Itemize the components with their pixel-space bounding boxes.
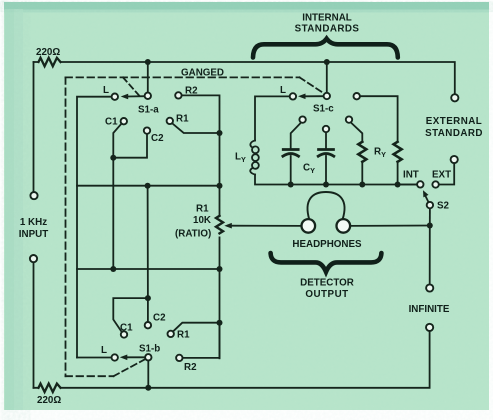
svg-text:INT: INT: [403, 170, 419, 181]
S1-c wiper arm: [305, 95, 324, 97]
inductor LY coil: [250, 141, 255, 148]
svg-text:STANDARDS: STANDARDS: [295, 24, 360, 35]
svg-text:L: L: [101, 345, 107, 356]
svg-text:S2: S2: [437, 201, 450, 212]
S1-a contact L: [112, 94, 118, 100]
svg-text:C2: C2: [153, 313, 166, 324]
resistor 220ohm (bottom): [39, 384, 61, 392]
svg-text:INFINITE: INFINITE: [409, 304, 450, 315]
wire: cap2 bottom lead: [325, 156, 327, 185]
wire: S1-c C contact to resistor1: [351, 123, 362, 142]
S1-c contact L: [290, 93, 296, 99]
S2 contact INT: [417, 181, 423, 187]
S1-a contact R1: [167, 118, 173, 124]
arrow pot wiper: [224, 223, 232, 229]
ganged dashed diagonal to S1-b: [114, 359, 146, 376]
arrow S1-c: [298, 94, 306, 100]
capacitor CY1 plates: [283, 148, 298, 151]
resistor RY2 zigzag: [394, 142, 402, 162]
junction top rail / S1-c: [324, 59, 330, 65]
wire: S1-a pole stem: [147, 62, 149, 93]
headphone earpiece left: [302, 219, 316, 233]
svg-text:L: L: [103, 85, 109, 96]
wire: S1-c D contact to right resistor column: [360, 96, 398, 142]
wire: left mid horizontal (upper): [77, 185, 220, 187]
wire: S1-b C1 contact branch: [113, 298, 148, 332]
junction headphone / S2: [427, 223, 433, 229]
resistor RY1 zigzag: [358, 142, 366, 162]
wire: S1-a C2 contact branch: [113, 134, 147, 158]
svg-text:S1-a: S1-a: [138, 105, 159, 116]
junction top rail / S1-a: [145, 59, 151, 65]
svg-text:R2: R2: [185, 86, 198, 97]
wire: S2 pole to headphone node: [429, 208, 431, 225]
junction RY1 / standards rail: [359, 182, 365, 188]
svg-text:STANDARD: STANDARD: [425, 128, 483, 139]
junction mid-upper / center: [145, 183, 151, 189]
svg-text:C1: C1: [120, 322, 133, 333]
svg-text:INTERNAL: INTERNAL: [302, 13, 352, 24]
wire: left input column (upper): [33, 62, 35, 192]
svg-text:S1-b: S1-b: [139, 344, 160, 355]
S1-c contact D: [354, 93, 360, 99]
junction R1a / R column: [217, 130, 223, 136]
ganged dashed diagonal to S1-c: [300, 77, 325, 93]
headphone headband arc: [308, 192, 345, 220]
wire: top rail from input corner to external-standard corner: [34, 62, 455, 94]
svg-text:INPUT: INPUT: [19, 229, 48, 240]
S1-a pole contact: [145, 93, 151, 99]
wire: S1-a R2 contact to R column: [182, 95, 220, 215]
arrow S1-b: [120, 355, 128, 361]
arrow S2: [423, 190, 429, 197]
svg-text:L: L: [280, 85, 286, 96]
S1-b pole contact: [145, 354, 151, 360]
terminal 1kHz input upper: [30, 192, 37, 199]
S1-c pole contact: [324, 93, 330, 99]
wire: S1-c pole stem: [326, 62, 328, 93]
wire: bottom rail: [34, 331, 430, 388]
svg-text:EXT: EXT: [432, 170, 451, 181]
wire: left mid horizontal (lower): [77, 268, 220, 270]
arrow S1-a: [121, 94, 129, 100]
S1-a contact R2: [175, 92, 181, 98]
wire: inductor bottom lead: [255, 175, 418, 185]
S1-c contact A: [299, 116, 305, 122]
wire: S1-a R1 contact branch: [172, 123, 219, 133]
wire: right headphone to S2 node: [350, 225, 430, 227]
svg-text:GANGED: GANGED: [181, 68, 224, 79]
svg-text:HEADPHONES: HEADPHONES: [292, 239, 362, 250]
svg-text:S1-c: S1-c: [313, 104, 334, 115]
S1-a wiper arm: [128, 95, 145, 97]
ganged dashed bottom run: [66, 375, 114, 377]
terminal external standard lower: [451, 156, 458, 163]
junction S1-b pole / bottom rail: [145, 385, 151, 391]
svg-text:10K: 10K: [193, 215, 211, 226]
S1-a contact C2: [144, 127, 150, 133]
wire: C-node vertical center: [147, 186, 149, 322]
wire: S1-a C1 contact branch: [113, 124, 121, 269]
junction C node lower: [145, 295, 151, 301]
wire: S1-c L contact to inductor column: [255, 96, 290, 140]
S1-b contact C2: [145, 322, 151, 328]
S1-b wiper arm: [127, 356, 146, 358]
ganged dashed left column: [65, 77, 67, 376]
svg-text:R1: R1: [176, 114, 189, 125]
svg-text:EXTERNAL: EXTERNAL: [426, 116, 482, 127]
junction cap1 / standards rail: [288, 182, 294, 188]
S1-b contact C1: [121, 331, 127, 337]
svg-text:OUTPUT: OUTPUT: [305, 289, 348, 300]
wire: resistor RY1 bottom lead: [361, 162, 363, 185]
junction mid-lower / R column: [217, 266, 223, 272]
potentiometer R1 10K zigzag: [216, 216, 223, 234]
wire: S1-b R2 contact branch: [183, 323, 220, 358]
terminal infinite lower: [426, 324, 433, 331]
wire: S1-b pole stem to bottom rail: [147, 360, 149, 388]
svg-text:1 KHz: 1 KHz: [20, 217, 47, 228]
wire: resistor RY2 bottom lead: [397, 162, 399, 185]
wire: S1-a L contact to left column: [77, 97, 112, 358]
S2 contact EXT: [432, 181, 438, 187]
wire: S1-c B contact to cap2: [325, 132, 327, 148]
svg-text:C1: C1: [105, 117, 118, 128]
wire: pot wiper to left headphone: [228, 225, 302, 227]
junction C node upper: [110, 155, 116, 161]
wire: cap1 bottom lead: [290, 156, 292, 185]
terminal 1kHz input lower: [30, 255, 37, 262]
terminal infinite upper: [426, 284, 433, 291]
svg-text:R1: R1: [177, 330, 190, 341]
svg-text:C2: C2: [151, 133, 164, 144]
S2 pole contact: [427, 202, 433, 208]
wire: S1-b R1 contact branch: [173, 323, 219, 332]
svg-text:220Ω: 220Ω: [37, 395, 61, 406]
junction mid-upper / R column: [217, 183, 223, 189]
junction RY2 / standards rail: [395, 182, 401, 188]
resistor 220ohm (top): [39, 58, 61, 66]
wire: headphone node to infinite upper terminal: [429, 226, 431, 285]
svg-text:220Ω: 220Ω: [36, 47, 60, 58]
svg-text:R2: R2: [184, 362, 197, 373]
svg-text:DETECTOR: DETECTOR: [300, 278, 354, 289]
ganged dashed linkage: top run: [66, 76, 300, 78]
wire: external standard lower lead to EXT contact: [439, 163, 454, 185]
S1-b contact R1: [168, 331, 174, 337]
capacitor CY2 plates: [319, 148, 334, 151]
S2 wiper arm: [425, 195, 429, 203]
brace: detector output: [271, 253, 382, 272]
wire: INT contact feed: [398, 184, 418, 186]
wire: S1-c A contact to cap1: [291, 123, 301, 148]
junction mid-lower / C column: [110, 266, 116, 272]
svg-text:R1: R1: [196, 204, 209, 215]
S1-a contact C1: [121, 118, 127, 124]
junction R1b / R column: [217, 320, 223, 326]
S1-b contact R2: [176, 355, 182, 361]
svg-text:(RATIO): (RATIO): [175, 229, 211, 240]
ganged dashed diagonal to S1-a: [123, 77, 140, 96]
headphone earpiece right: [337, 219, 351, 233]
wire: S1-b L contact feed: [77, 357, 112, 359]
S1-b contact L: [112, 354, 118, 360]
brace: internal standards: [253, 39, 398, 58]
terminal external standard upper: [451, 94, 458, 101]
wire: R column lower: [219, 237, 221, 358]
S1-c contact B: [323, 126, 329, 132]
S1-c contact C: [346, 116, 352, 122]
wire: left input column (lower): [33, 262, 35, 388]
junction cap2 / standards rail: [323, 182, 329, 188]
